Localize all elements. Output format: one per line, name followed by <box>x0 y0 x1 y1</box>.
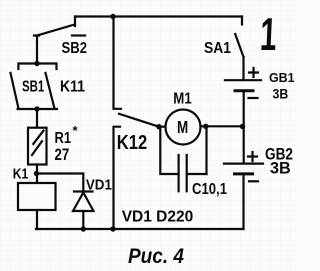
svg-text:VD1 D220: VD1 D220 <box>122 209 194 226</box>
svg-text:SB2: SB2 <box>62 40 88 57</box>
svg-text:VD1: VD1 <box>86 178 112 194</box>
svg-text:GB1: GB1 <box>269 70 295 85</box>
svg-text:C10,1: C10,1 <box>192 181 227 198</box>
svg-text:SB1: SB1 <box>22 79 44 96</box>
svg-text:M1: M1 <box>173 90 192 107</box>
svg-text:3В: 3В <box>273 86 289 102</box>
svg-text:K11: K11 <box>60 79 85 96</box>
svg-text:3В: 3В <box>270 158 291 177</box>
svg-text:K1: K1 <box>13 166 28 182</box>
svg-text:K12: K12 <box>117 132 148 154</box>
svg-text:1: 1 <box>259 10 278 61</box>
svg-text:27: 27 <box>55 145 70 164</box>
svg-text:SA1: SA1 <box>204 40 231 57</box>
svg-text:Рис. 4: Рис. 4 <box>128 244 184 268</box>
svg-text:M: M <box>177 117 188 137</box>
